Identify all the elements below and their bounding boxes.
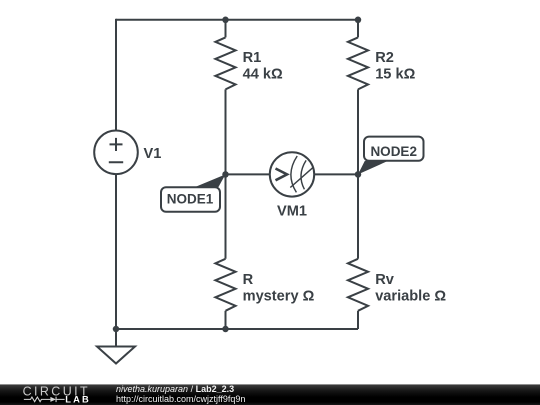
svg-text:variable Ω: variable Ω bbox=[375, 289, 446, 305]
resistor R (mystery) bbox=[215, 259, 235, 311]
svg-text:R2: R2 bbox=[375, 50, 394, 66]
wire bottom rail bbox=[116, 328, 358, 330]
svg-text:NODE1: NODE1 bbox=[167, 191, 214, 206]
junction dot top middle bbox=[222, 17, 229, 24]
svg-text:Rv: Rv bbox=[375, 272, 395, 288]
voltage source V1 bbox=[94, 131, 138, 175]
resistor Rv (variable) bbox=[348, 259, 368, 311]
ground bbox=[97, 347, 135, 364]
wire ground stub bbox=[115, 329, 117, 347]
wire right branch (R2 to Rv) bbox=[357, 89, 359, 258]
wire top rail bbox=[116, 19, 358, 21]
svg-text:VM1: VM1 bbox=[277, 204, 307, 220]
wire right branch upper lead bbox=[357, 20, 359, 38]
footer bar bbox=[0, 384, 540, 405]
node NODE1 callout bbox=[161, 174, 226, 211]
svg-text:LAB: LAB bbox=[65, 394, 91, 404]
node NODE2 callout bbox=[358, 137, 424, 175]
svg-text:mystery Ω: mystery Ω bbox=[243, 289, 315, 305]
wire right branch lower lead bbox=[357, 311, 359, 329]
node NODE2 junction dot bbox=[355, 171, 362, 178]
junction dot top right bbox=[355, 17, 362, 24]
wire node1 to voltmeter bbox=[226, 173, 271, 175]
svg-text:R1: R1 bbox=[243, 50, 262, 66]
wire left upper (V1 top lead) bbox=[115, 19, 117, 131]
svg-text:V1: V1 bbox=[144, 146, 162, 162]
wire voltmeter to node2 bbox=[314, 173, 358, 175]
svg-text:NODE2: NODE2 bbox=[370, 144, 417, 159]
wire middle branch upper lead bbox=[225, 20, 227, 38]
junction dot bottom middle bbox=[222, 326, 229, 333]
resistor R2 bbox=[348, 37, 368, 89]
voltmeter VM1 bbox=[270, 152, 314, 196]
footer text bbox=[116, 385, 245, 404]
wire left lower (V1 bottom lead) bbox=[115, 174, 117, 329]
node NODE1 junction dot bbox=[222, 171, 229, 178]
svg-text:15 kΩ: 15 kΩ bbox=[375, 67, 415, 83]
resistor R1 bbox=[215, 37, 235, 89]
svg-text:44 kΩ: 44 kΩ bbox=[243, 67, 283, 83]
CircuitLab logo bbox=[22, 385, 94, 404]
junction dot bottom left (ground) bbox=[113, 326, 120, 333]
wire middle branch (R1 to R) bbox=[225, 89, 227, 258]
svg-text:R: R bbox=[243, 272, 254, 288]
wire middle branch lower lead bbox=[225, 311, 227, 329]
